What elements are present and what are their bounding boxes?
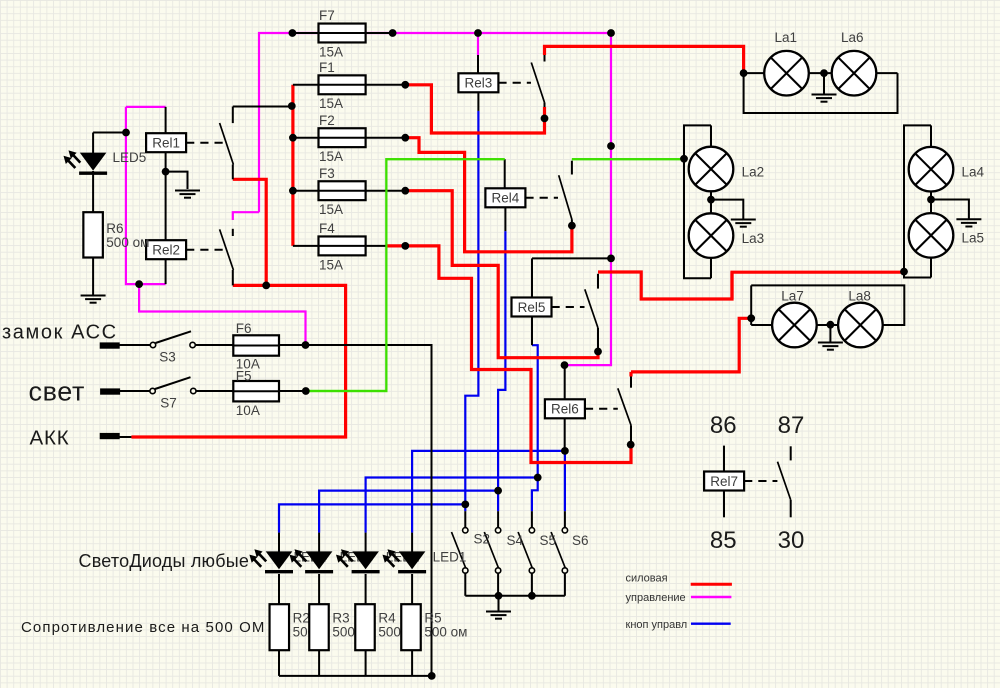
svg-text:S4: S4 [507,533,524,548]
svg-text:500 ом: 500 ом [106,235,149,250]
svg-text:La3: La3 [742,231,765,246]
svg-text:силовая: силовая [626,573,668,585]
svg-text:La5: La5 [962,231,985,246]
svg-text:свет: свет [29,376,85,406]
svg-text:500: 500 [378,625,401,640]
svg-text:15A: 15A [319,202,343,217]
svg-text:F6: F6 [236,321,252,336]
svg-text:R2: R2 [293,611,310,626]
svg-text:Rel6: Rel6 [551,402,579,417]
svg-text:87: 87 [778,412,805,439]
svg-text:Rel4: Rel4 [492,191,520,206]
svg-text:R6: R6 [106,221,123,236]
svg-text:500 ом: 500 ом [424,625,467,640]
svg-text:F2: F2 [319,113,335,128]
svg-text:R4: R4 [378,611,396,626]
svg-text:Rel5: Rel5 [518,300,546,315]
svg-text:15A: 15A [319,96,343,111]
svg-text:La6: La6 [841,30,864,45]
svg-text:500: 500 [332,625,355,640]
svg-text:Rel1: Rel1 [152,136,180,151]
svg-text:Rel7: Rel7 [710,474,738,489]
svg-text:S3: S3 [159,350,176,365]
svg-text:85: 85 [710,527,737,554]
svg-text:Rel3: Rel3 [465,76,493,91]
svg-text:La7: La7 [781,289,804,304]
svg-text:30: 30 [778,527,805,554]
svg-text:R5: R5 [424,611,441,626]
svg-text:управление: управление [626,592,686,604]
svg-text:S6: S6 [572,533,589,548]
svg-text:LED1: LED1 [433,550,467,565]
svg-text:La8: La8 [848,289,871,304]
svg-text:LED5: LED5 [113,150,147,165]
svg-text:10A: 10A [236,403,260,418]
svg-text:СветоДиоды любые: СветоДиоды любые [79,551,250,571]
svg-text:F4: F4 [319,221,335,236]
svg-text:15A: 15A [319,257,343,272]
svg-text:R3: R3 [332,611,349,626]
svg-text:15A: 15A [319,149,343,164]
svg-text:Сопротивление все на 500 ОМ: Сопротивление все на 500 ОМ [21,619,265,636]
svg-text:S5: S5 [540,533,557,548]
svg-text:S2: S2 [474,532,491,547]
svg-text:АКК: АКК [30,427,70,450]
svg-text:F1: F1 [319,60,335,75]
svg-text:Rel2: Rel2 [152,243,180,258]
svg-text:La1: La1 [775,30,798,45]
svg-text:86: 86 [710,412,737,439]
svg-text:F5: F5 [236,369,252,384]
svg-text:15A: 15A [319,44,343,59]
svg-text:F3: F3 [319,166,335,181]
svg-text:замок АСС: замок АСС [2,322,118,344]
svg-text:La2: La2 [742,165,765,180]
svg-text:S7: S7 [160,396,177,411]
svg-text:кноп управл: кноп управл [626,619,688,631]
svg-text:F7: F7 [319,8,335,23]
svg-text:La4: La4 [962,165,985,180]
